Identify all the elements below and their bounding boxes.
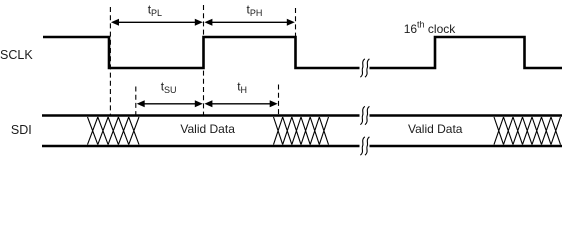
tSU arrow	[137, 100, 203, 107]
tH arrow	[204, 100, 277, 107]
SDI bus bottom break mark	[360, 137, 369, 155]
SDI bus top line (to break)	[42, 114, 562, 117]
svg-text:SCLK: SCLK	[0, 48, 33, 62]
tPL arrow	[111, 19, 203, 26]
dashed line at second SCLK falling edge	[295, 8, 297, 36]
svg-text:16th clock: 16th clock	[404, 20, 457, 37]
SCLK waveform left (high, low pulse, high, to break)	[43, 37, 360, 68]
dashed line at tH end	[278, 85, 280, 115]
hatch transition region 1	[88, 117, 140, 145]
hatch transition region 3	[494, 117, 561, 145]
dashed line at tSU start	[135, 87, 137, 115]
SCLK waveform right (after break: low, 16th clock pulse, low)	[370, 37, 563, 68]
tPH arrow	[204, 19, 294, 26]
svg-text:SDI: SDI	[11, 123, 32, 137]
svg-text:Valid Data: Valid Data	[180, 122, 235, 136]
dashed line at SCLK rising edge	[203, 5, 205, 115]
dashed line at first SCLK falling edge	[109, 7, 111, 115]
svg-text:Valid Data: Valid Data	[408, 122, 463, 136]
SDI bus bottom line	[42, 145, 562, 148]
SCLK break mark	[360, 59, 369, 77]
hatch transition region 2	[274, 117, 329, 145]
SDI bus top break mark	[360, 106, 369, 124]
